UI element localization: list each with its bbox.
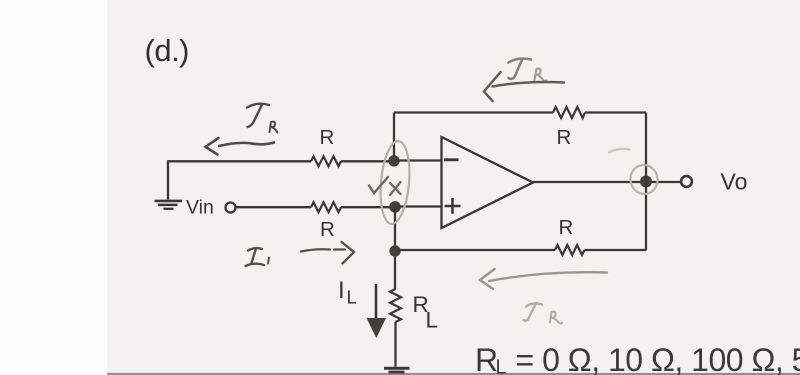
node: load / bottom-feedback junction [389,245,400,256]
svg-text:R: R [320,218,335,241]
annotation: handwritten x (node voltage) [390,182,401,195]
resistor R (upper input resistor) [311,156,341,166]
annotation: handwritten arrow (bottom, pointing left) [480,269,607,289]
wire: bottom feedback right segment [585,249,647,251]
node: non-inverting input junction (node X) [389,201,401,213]
annotation: handwritten IR label (top right) [509,59,547,82]
annotation: handwritten circle around output node [628,163,660,196]
wire: top feedback right segment and drop to output [585,113,646,251]
node: inverting input junction [388,155,399,166]
wire: RL to bottom ground [394,322,396,367]
annotation: faint pencil dash [609,149,630,153]
svg-text:L: L [426,308,439,333]
svg-text:R: R [559,216,574,239]
op-amp U1 [442,137,534,228]
svg-text:Vo: Vo [721,169,748,195]
svg-text:R: R [320,126,335,149]
wire: bottom feedback left segment [395,249,555,251]
wire: node X to op-amp plus input [395,205,442,207]
wire: lower resistor to non-inverting node X [341,206,395,208]
resistor R (lower input resistor) [311,202,341,212]
annotation: checkmark near node X [369,177,388,193]
annotation: handwritten arrow for I1 (pointing right) [301,242,354,264]
annotation: handwritten IR label (top left) [247,104,278,133]
resistor R (bottom feedback) [555,245,585,255]
resistor RL (load) [390,289,401,322]
svg-text:Vin: Vin [186,197,214,219]
wire: Vin terminal to resistor R (non-inverting path) [236,206,311,208]
svg-text:R: R [557,126,572,149]
resistor R (top feedback) [553,107,585,118]
terminal Vo [681,176,692,187]
svg-text:(d.): (d.) [145,33,190,68]
svg-text:= 0 Ω, 10 Ω, 100 Ω, 5: = 0 Ω, 10 Ω, 100 Ω, 5 [516,342,800,375]
node: output junction [640,176,652,188]
annotation: handwritten arrow (top right, pointing left) [484,72,564,101]
wire: top feedback left segment [394,111,553,113]
wire: upper resistor to inverting node [341,160,394,162]
wire: op-amp output to terminal [533,181,681,183]
svg-text:I: I [338,277,345,304]
annotation: handwritten arrow for IR (top left, pointing left) [206,138,275,155]
annotation: handwritten IR label (bottom) [524,303,563,323]
annotation: ellipse circling node X [377,140,412,225]
wire: node X down to load branch junction [394,207,396,289]
terminal Vin [226,203,236,213]
svg-text:L: L [496,357,507,375]
ground (bottom, under RL) [384,368,410,372]
svg-text:L: L [347,287,357,308]
annotation: handwritten I1 label [246,248,270,266]
wire: inverting node to op-amp minus input [394,159,442,161]
ground (left, reference for inverting path) [155,201,183,209]
wire: top feedback branch down to inverting node [393,113,395,161]
arrow: IL current direction (down) [375,284,378,319]
wire: left ground corner to resistor R (inverting path) [168,161,311,199]
